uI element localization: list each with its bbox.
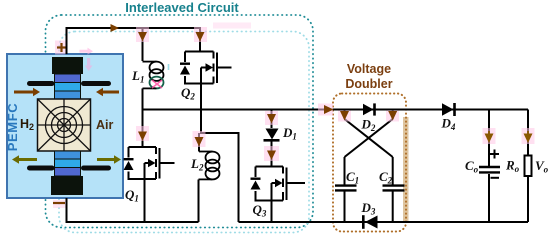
- svg-text:D1: D1: [282, 125, 297, 142]
- svg-text:Ro: Ro: [505, 158, 520, 175]
- svg-text:L1: L1: [131, 68, 144, 85]
- svg-text:L2: L2: [190, 156, 204, 173]
- svg-text:C2: C2: [379, 169, 393, 186]
- svg-text:Doubler: Doubler: [345, 77, 392, 91]
- svg-text:Voltage: Voltage: [347, 62, 391, 76]
- svg-text:Q2: Q2: [181, 85, 195, 102]
- svg-text:Q3: Q3: [253, 202, 267, 219]
- svg-text:Q1: Q1: [125, 187, 139, 204]
- svg-text:Air: Air: [96, 118, 114, 132]
- svg-text:Co: Co: [465, 158, 479, 175]
- svg-text:D4: D4: [441, 116, 456, 133]
- svg-text:D3: D3: [361, 200, 376, 217]
- svg-text:Vo: Vo: [535, 158, 549, 175]
- svg-text:C1: C1: [346, 169, 359, 186]
- svg-text:PEMFC: PEMFC: [5, 103, 20, 152]
- svg-text:D2: D2: [361, 117, 376, 134]
- svg-text:Interleaved Circuit: Interleaved Circuit: [125, 0, 239, 15]
